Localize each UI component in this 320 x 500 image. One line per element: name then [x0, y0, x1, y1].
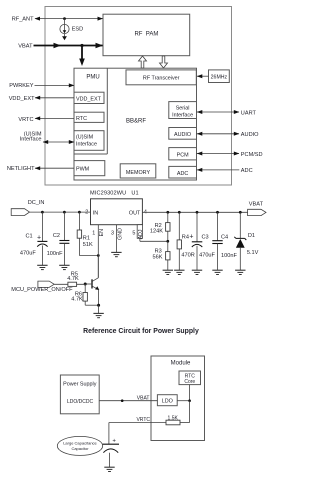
junction C2	[63, 211, 66, 214]
wire LDO to RTC Core	[177, 385, 189, 401]
svg-text:MCU_POWER_ON/OFF: MCU_POWER_ON/OFF	[11, 287, 73, 293]
capacitor C2	[47, 212, 70, 265]
PCM box	[169, 148, 197, 160]
junction C3	[196, 211, 199, 214]
svg-text:Interface: Interface	[172, 112, 193, 118]
ground (C2)	[59, 265, 69, 269]
svg-text:VBAT: VBAT	[18, 44, 33, 50]
svg-text:124K: 124K	[150, 229, 163, 235]
svg-text:470R: 470R	[181, 252, 194, 258]
RTC Core box	[179, 371, 201, 385]
junction on VBAT wire	[121, 399, 124, 402]
svg-text:100nF: 100nF	[47, 251, 63, 257]
svg-text:BB&RF: BB&RF	[126, 119, 146, 125]
svg-text:GND: GND	[118, 228, 124, 240]
resistor R3	[153, 241, 170, 270]
node NETLIGHT	[7, 166, 74, 172]
resistor 1.5K	[166, 415, 180, 425]
ground (R3)	[163, 270, 173, 274]
hollow arrow down (RF PAM to RF Transceiver)	[160, 56, 168, 68]
pin 4 OUT	[129, 210, 147, 217]
svg-text:LDO: LDO	[162, 398, 173, 404]
ground (C4)	[212, 270, 222, 274]
svg-text:Module: Module	[171, 360, 191, 366]
PMU block	[74, 68, 107, 154]
junction ADJ/R2/R3	[166, 240, 169, 243]
node ADC	[197, 168, 253, 174]
Module box	[151, 356, 205, 441]
RF Transceiver box	[126, 70, 196, 85]
svg-text:VDD_EXT: VDD_EXT	[9, 96, 35, 102]
ground (D1)	[235, 270, 245, 274]
svg-text:Reference Circuit for Power Su: Reference Circuit for Power Supply	[83, 328, 199, 335]
wire DC_IN to U1 IN	[30, 211, 91, 213]
svg-text:1: 1	[92, 231, 95, 237]
svg-text:MEMORY: MEMORY	[126, 170, 151, 176]
wire RF_ANT to RF PAM	[35, 17, 104, 21]
junction R1	[78, 211, 81, 214]
Power Supply box	[60, 375, 99, 414]
svg-text:LDO/DCDC: LDO/DCDC	[67, 399, 94, 405]
svg-text:3: 3	[111, 231, 114, 237]
ground (Q1)	[93, 313, 103, 317]
resistor R1	[77, 212, 98, 255]
svg-text:+: +	[189, 234, 193, 241]
svg-text:NETLIGHT: NETLIGHT	[7, 166, 35, 172]
pin 5 ADJ	[132, 225, 167, 242]
svg-text:PCM: PCM	[177, 153, 189, 159]
svg-text:PWM: PWM	[76, 167, 90, 173]
wire VBAT thick to RF PAM	[34, 43, 104, 49]
capacitor large (bottom)	[103, 439, 119, 468]
svg-text:470uF: 470uF	[20, 251, 36, 257]
junction R4	[178, 211, 181, 214]
svg-text:IN: IN	[93, 210, 98, 216]
resistor R2	[150, 212, 170, 241]
junction emitter/R6	[97, 304, 100, 307]
svg-text:VRTC: VRTC	[18, 117, 33, 123]
wire 26MHz to RF Transceiver	[197, 74, 209, 78]
svg-text:ESD: ESD	[72, 27, 84, 33]
PWM box	[74, 161, 105, 176]
node AUDIO	[197, 132, 260, 138]
resistor R6	[71, 284, 98, 305]
node UART	[197, 110, 257, 116]
wire LDO out down to 1.5K	[180, 401, 190, 423]
junction D1	[239, 211, 242, 214]
wire emitter to ground	[98, 305, 100, 313]
resistor R4	[177, 212, 195, 270]
svg-text:C3: C3	[202, 235, 209, 241]
node (U)SIM	[20, 131, 75, 144]
svg-text:C2: C2	[53, 233, 60, 239]
svg-text:RF Transceiver: RF Transceiver	[143, 76, 180, 82]
resistor R5	[54, 272, 85, 287]
MEMORY box	[120, 164, 156, 178]
junction C1	[41, 211, 44, 214]
junction C4	[216, 211, 219, 214]
regulator U1 box	[91, 199, 143, 225]
module outer box	[45, 7, 232, 186]
svg-text:C1: C1	[25, 233, 32, 239]
junction R2	[166, 211, 169, 214]
svg-text:EN: EN	[99, 229, 105, 237]
svg-text:Power Supply: Power Supply	[63, 381, 97, 387]
svg-text:4.7K: 4.7K	[67, 276, 79, 282]
svg-text:1.5K: 1.5K	[168, 415, 179, 421]
node VRTC	[18, 116, 74, 122]
svg-text:OUT: OUT	[129, 210, 141, 216]
VDD_EXT box	[74, 92, 104, 103]
transistor Q1	[92, 256, 99, 306]
svg-text:+: +	[37, 235, 41, 242]
svg-text:2: 2	[85, 210, 88, 216]
svg-text:VBAT: VBAT	[137, 395, 150, 401]
svg-text:R1: R1	[83, 235, 90, 241]
node PCM/SD	[197, 152, 263, 158]
ESD diode D-ESD	[60, 19, 83, 41]
svg-text:4.7K: 4.7K	[71, 296, 83, 302]
svg-text:AUDIO: AUDIO	[174, 132, 191, 138]
Serial Interface box	[169, 102, 197, 119]
svg-text:RF_ANT: RF_ANT	[12, 17, 34, 23]
svg-text:MIC29302WU U1: MIC29302WU U1	[90, 191, 139, 197]
svg-text:UART: UART	[241, 110, 257, 116]
svg-text:26MHz: 26MHz	[211, 75, 228, 81]
svg-text:RF PAM: RF PAM	[134, 32, 158, 38]
node PWRKEY	[9, 83, 74, 89]
svg-text:PCM/SD: PCM/SD	[241, 152, 263, 158]
svg-text:ADC: ADC	[177, 171, 188, 177]
capacitor C4	[212, 212, 237, 270]
base wire	[85, 283, 92, 285]
pin 2 IN	[85, 210, 98, 217]
pin 3 GND wire	[111, 225, 124, 253]
ground (C3)	[192, 270, 202, 274]
ground (C1)	[37, 265, 47, 269]
svg-text:5.1V: 5.1V	[247, 250, 259, 256]
pin 1 EN wire	[92, 225, 105, 278]
svg-text:(U)SIM: (U)SIM	[76, 135, 94, 141]
node MCU_POWER_ON/OFF	[11, 281, 73, 293]
svg-text:100nF: 100nF	[221, 253, 237, 259]
svg-text:D1: D1	[248, 233, 255, 239]
crystal 26MHz box	[209, 70, 230, 83]
svg-text:Interface: Interface	[76, 142, 97, 148]
svg-text:PWRKEY: PWRKEY	[9, 83, 34, 89]
svg-text:+: +	[112, 439, 116, 445]
hollow arrow up (RF PAM to BB&RF)	[139, 56, 147, 68]
svg-text:RTC: RTC	[76, 116, 87, 122]
node VBAT (middle right)	[248, 202, 266, 216]
LDO box	[157, 395, 177, 406]
svg-text:56K: 56K	[153, 254, 163, 260]
svg-text:5: 5	[132, 231, 135, 237]
svg-text:Core: Core	[184, 379, 195, 385]
node DC_IN	[11, 200, 44, 216]
wire VBAT down to PMU	[79, 46, 85, 67]
svg-text:VRTC: VRTC	[136, 417, 150, 423]
svg-text:AUDIO: AUDIO	[241, 132, 259, 138]
svg-text:470uF: 470uF	[199, 252, 215, 258]
ground (bottom cap)	[104, 467, 114, 471]
svg-text:PMU: PMU	[86, 74, 99, 80]
svg-text:VDD_EXT: VDD_EXT	[76, 97, 102, 103]
svg-text:ADC: ADC	[241, 168, 253, 174]
ground (R4)	[174, 270, 184, 274]
junction on RF_ANT line	[63, 17, 66, 20]
svg-text:51K: 51K	[83, 242, 93, 248]
capacitor C1	[20, 212, 48, 265]
node RF_ANT label	[12, 17, 34, 23]
zener diode D1	[234, 212, 258, 270]
BB&RF box	[74, 68, 197, 180]
svg-text:Serial: Serial	[176, 105, 190, 111]
wire U1 OUT to VBAT	[142, 211, 247, 213]
junction base	[84, 283, 87, 286]
wire VBAT (bottom)	[99, 395, 157, 401]
ground (U1 GND)	[111, 252, 121, 256]
callout Large Capacitance Capacitor	[57, 436, 102, 455]
capacitor C3	[189, 212, 215, 270]
RF PAM box U-RFPAM	[103, 14, 190, 56]
node VDD_EXT	[9, 96, 74, 102]
ADC box	[169, 166, 197, 178]
junction LDO out	[188, 399, 191, 402]
svg-text:Capacitor: Capacitor	[71, 446, 89, 451]
svg-text:R4: R4	[182, 235, 189, 241]
svg-text:VBAT: VBAT	[249, 202, 264, 208]
svg-text:DC_IN: DC_IN	[28, 200, 45, 206]
svg-text:ADJ: ADJ	[138, 229, 144, 239]
svg-text:C4: C4	[221, 235, 228, 241]
junction VBAT branch	[80, 44, 83, 47]
svg-text:Interface: Interface	[20, 137, 42, 143]
AUDIO box	[169, 128, 197, 140]
(U)SIM Interface box	[74, 131, 104, 151]
junction R1/EN	[97, 254, 100, 257]
wire VRTC	[109, 417, 166, 444]
RTC box	[74, 112, 104, 122]
